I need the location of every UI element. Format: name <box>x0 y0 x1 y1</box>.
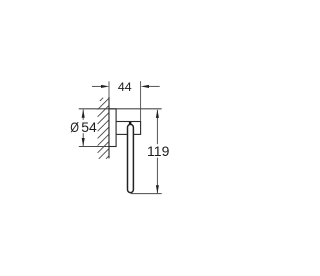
extension line top horizontal (plate top / dim 54 top / dim 119 top) <box>79 108 162 110</box>
wall hatching <box>98 98 109 159</box>
extension line dim 119 bottom <box>131 193 162 195</box>
extension line dim 44 left (above wall) <box>108 81 110 97</box>
pivot block <box>129 122 132 125</box>
wall surface line (lower part, object line) <box>108 97 110 158</box>
dimension 44 line right (arrowhead + tail) <box>141 85 160 88</box>
mounting plate (wall rosette, side view) <box>109 109 116 147</box>
dimension 54 line (vertical, two segments with arrows) <box>82 110 85 147</box>
arm (holder bracket, side view) <box>116 122 141 135</box>
extension line dim 44 right <box>140 81 142 121</box>
extension line dim 54 bottom <box>79 146 116 148</box>
ring (paper holder ring, side view) <box>128 124 134 192</box>
dimension 44 line left (tail + arrowhead) <box>92 85 109 88</box>
svg-text:Ø: Ø <box>70 120 79 135</box>
dimension 119 line (vertical, two segments with arrows) <box>156 110 159 194</box>
svg-text:119: 119 <box>147 143 170 159</box>
svg-text:54: 54 <box>81 119 97 135</box>
svg-text:44: 44 <box>118 80 132 94</box>
